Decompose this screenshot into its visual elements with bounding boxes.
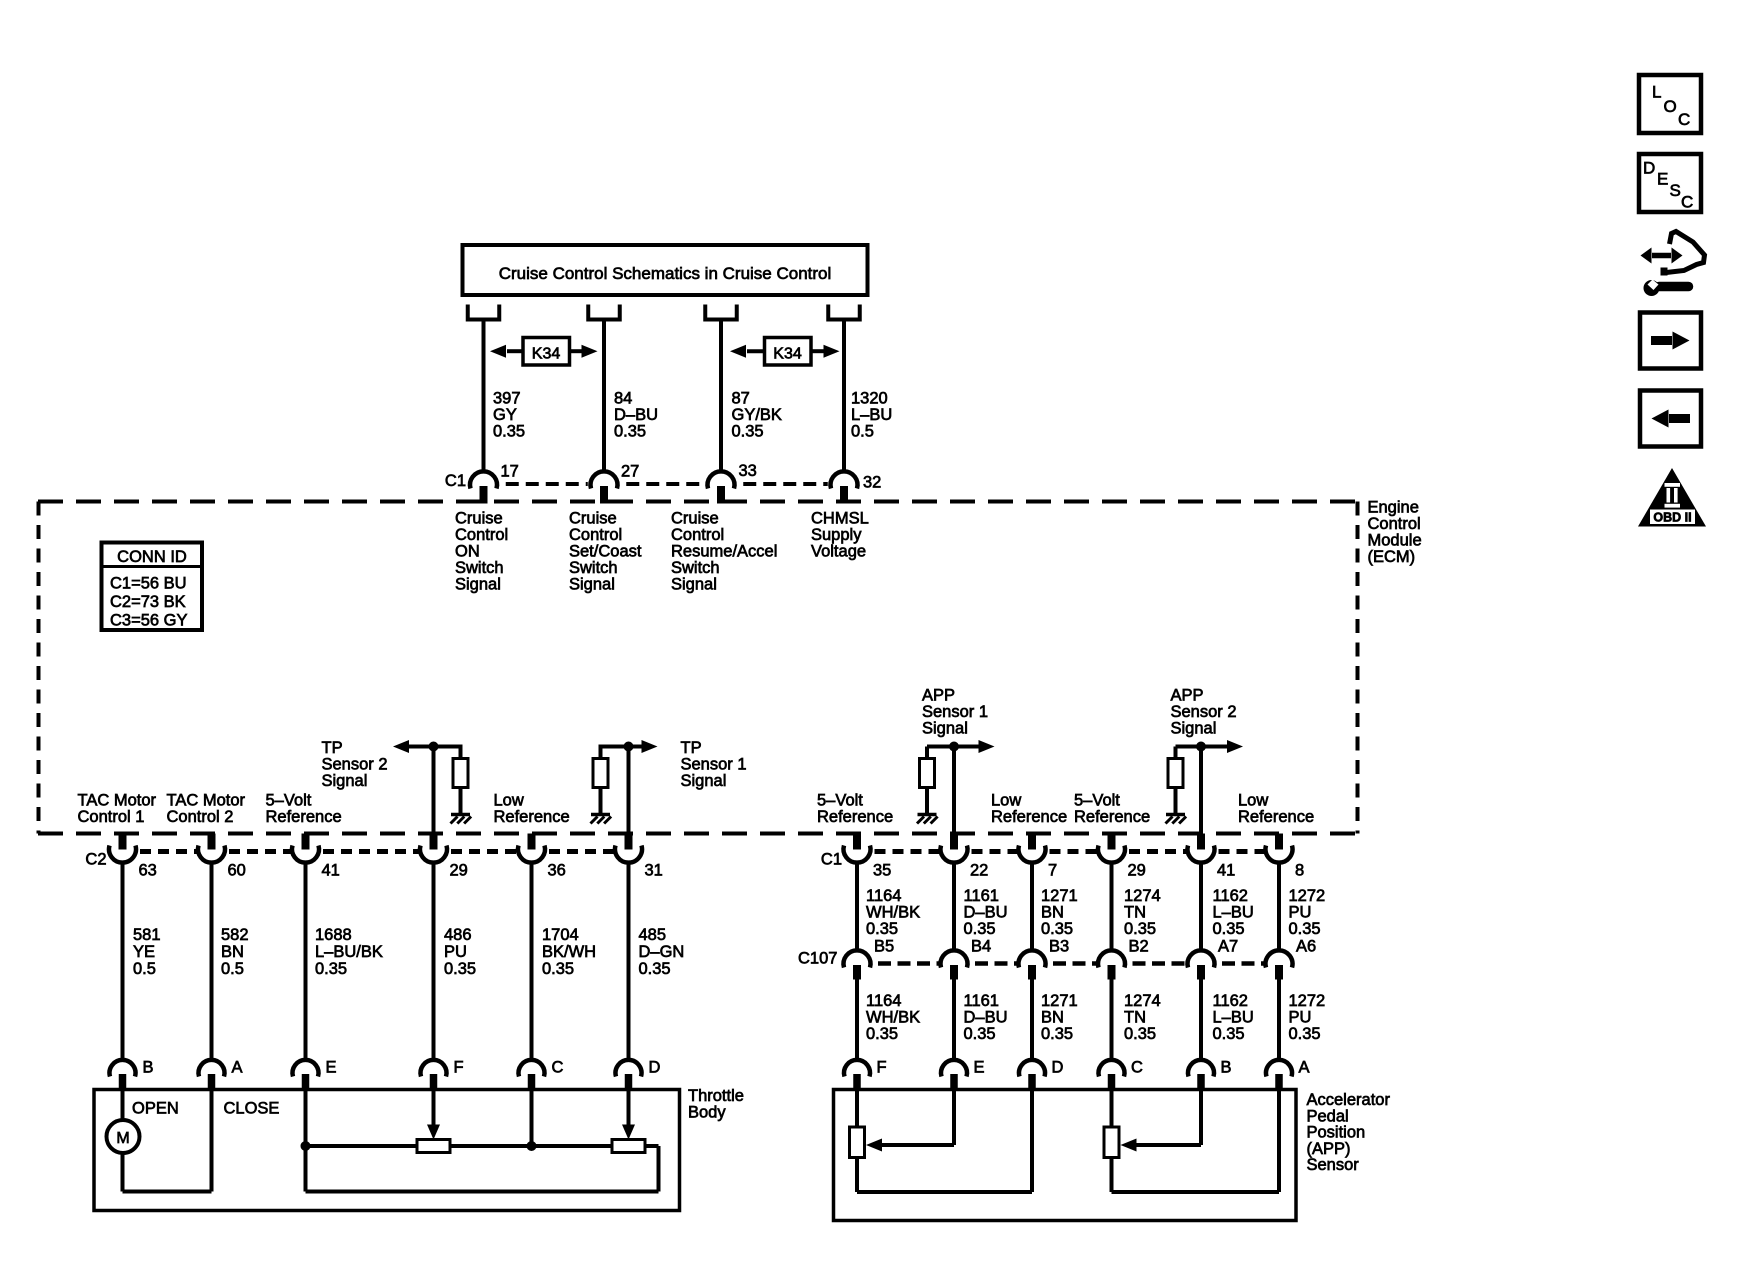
- svg-text:Voltage: Voltage: [811, 543, 866, 561]
- resistor R1: [453, 759, 468, 788]
- svg-text:D: D: [1643, 159, 1655, 178]
- wire pin F to APP pot 1: [855, 1090, 859, 1128]
- svg-text:BK/WH: BK/WH: [542, 943, 596, 961]
- svg-text:C: C: [1131, 1059, 1143, 1077]
- resistor R2: [593, 759, 608, 788]
- wire motor bottom horizontal: [123, 1190, 212, 1194]
- throttle body connector pin F stub: [430, 1074, 438, 1090]
- svg-text:29: 29: [450, 862, 468, 880]
- ECM dashed box left border: [37, 502, 41, 834]
- throttle body connector pin B stub: [119, 1074, 127, 1090]
- wire resistor R3 to ground: [925, 788, 929, 814]
- svg-text:O: O: [1664, 97, 1677, 116]
- wire APP pot1 down: [855, 1158, 859, 1193]
- wire bend to resistor R2: [599, 745, 603, 759]
- connector C107 pin B5 stub: [853, 965, 861, 980]
- connector C2 dashed line: [137, 849, 197, 854]
- wire TP pot1 to pot2: [450, 1144, 612, 1148]
- svg-text:5–Volt: 5–Volt: [817, 792, 863, 810]
- svg-text:0.35: 0.35: [493, 423, 525, 441]
- svg-text:1271: 1271: [1041, 887, 1078, 905]
- svg-text:32: 32: [863, 474, 881, 492]
- cruise control schematics title box: [463, 245, 868, 295]
- svg-text:Control: Control: [455, 526, 508, 544]
- svg-text:1162: 1162: [1213, 992, 1248, 1010]
- svg-text:0.35: 0.35: [1124, 920, 1156, 938]
- svg-text:APP: APP: [1171, 687, 1204, 705]
- ground below R3: [918, 813, 937, 817]
- wire APP pot1 bottom: [857, 1190, 1032, 1194]
- svg-text:Control: Control: [1368, 515, 1421, 533]
- node junction C: [527, 1141, 537, 1151]
- svg-text:CLOSE: CLOSE: [224, 1100, 280, 1118]
- ECM dashed box right border: [1356, 502, 1360, 834]
- svg-text:TP: TP: [681, 739, 702, 757]
- wire APP sensor 1 to pin 22: [952, 747, 956, 834]
- svg-text:17: 17: [501, 463, 519, 481]
- TP wiper arrow F: [432, 1090, 436, 1126]
- connector C107 pin A7 arc: [1188, 950, 1215, 967]
- svg-text:Body: Body: [688, 1104, 726, 1122]
- connector C1 pin 29 stub: [1108, 834, 1116, 850]
- ECM dashed box bottom border: [38, 832, 1358, 836]
- icon forward arrow box: [1640, 313, 1701, 369]
- svg-text:B2: B2: [1129, 938, 1149, 956]
- svg-text:0.35: 0.35: [964, 920, 996, 938]
- throttle body box: [94, 1090, 680, 1211]
- svg-text:5–Volt: 5–Volt: [266, 792, 312, 810]
- APP wiper arrow E: [952, 1090, 956, 1146]
- throttle body connector pin A arc: [199, 1060, 225, 1077]
- icon OBD II triangle: [1638, 468, 1706, 527]
- node junction APP sensor 1: [949, 742, 959, 752]
- APP connector pin C stub: [1108, 1074, 1116, 1090]
- svg-text:B: B: [1221, 1059, 1232, 1077]
- APP connector pin A arc: [1266, 1060, 1292, 1077]
- wire 1272 PU upper: [1277, 861, 1281, 952]
- APP connector pin F stub: [853, 1074, 861, 1090]
- throttle body connector pin A stub: [208, 1074, 216, 1090]
- svg-text:(ECM): (ECM): [1368, 548, 1416, 566]
- svg-text:0.35: 0.35: [614, 423, 646, 441]
- connector C107 pin B3 arc: [1019, 950, 1046, 967]
- svg-text:60: 60: [228, 862, 246, 880]
- svg-text:Control 2: Control 2: [167, 808, 234, 826]
- svg-text:D: D: [1052, 1059, 1064, 1077]
- svg-text:TAC Motor: TAC Motor: [78, 792, 157, 810]
- connector C107 pin B2 arc: [1098, 950, 1125, 967]
- svg-text:A: A: [1299, 1059, 1310, 1077]
- svg-text:0.35: 0.35: [1213, 1025, 1245, 1043]
- svg-text:1161: 1161: [964, 992, 999, 1010]
- svg-text:Position: Position: [1307, 1124, 1366, 1142]
- throttle body connector pin F arc: [421, 1060, 447, 1077]
- svg-text:Low: Low: [1238, 792, 1268, 810]
- svg-text:Low: Low: [991, 792, 1021, 810]
- svg-text:Reference: Reference: [817, 808, 893, 826]
- svg-text:41: 41: [1217, 862, 1235, 880]
- svg-text:Supply: Supply: [811, 526, 862, 544]
- svg-text:YE: YE: [133, 943, 155, 961]
- wire 397 GY 0.35 wire: [482, 320, 486, 474]
- connector C1 pin 22 stub: [950, 834, 958, 850]
- svg-text:BN: BN: [1041, 1009, 1064, 1027]
- icon tools double arrow: [1652, 253, 1671, 259]
- wire 581 YE: [121, 861, 125, 1062]
- svg-text:1272: 1272: [1289, 887, 1326, 905]
- svg-text:M: M: [116, 1130, 129, 1147]
- svg-text:Sensor: Sensor: [1307, 1156, 1360, 1174]
- svg-text:A: A: [232, 1059, 243, 1077]
- svg-text:Reference: Reference: [991, 808, 1067, 826]
- splice pack K34 left arrows: [507, 349, 523, 353]
- svg-text:A6: A6: [1296, 938, 1316, 956]
- APP connector pin D stub: [1028, 1074, 1036, 1090]
- connector C2 pin 63 stub: [119, 834, 127, 850]
- connector C1 pin 8 arc: [1265, 846, 1292, 863]
- svg-text:Control: Control: [671, 526, 724, 544]
- connector C2 pin 36 arc: [518, 846, 545, 863]
- connector C2 pin 60 arc: [198, 846, 225, 863]
- svg-text:Signal: Signal: [569, 576, 615, 594]
- wire resistor R3 bend: [925, 747, 929, 759]
- svg-text:CHMSL: CHMSL: [811, 510, 869, 528]
- svg-text:Sensor 1: Sensor 1: [681, 756, 747, 774]
- wire up to pin D: [1030, 1090, 1034, 1193]
- wire motor to bottom: [121, 1152, 125, 1192]
- wire 1162 L-BU lower: [1199, 980, 1203, 1063]
- svg-text:0.35: 0.35: [1041, 1025, 1073, 1043]
- wire up to pin A: [210, 1090, 214, 1192]
- connector C107 pin B2 stub: [1108, 965, 1116, 980]
- wire pin E vertical: [304, 1090, 308, 1192]
- connector C1 dashed line: [500, 482, 588, 486]
- svg-text:APP: APP: [922, 687, 955, 705]
- wire pin B to motor: [121, 1090, 125, 1122]
- wire APP sensor 2 to pin 41: [1199, 747, 1203, 834]
- wire E to TP pot 1: [306, 1144, 418, 1148]
- ground below R1: [451, 813, 470, 817]
- svg-text:Engine: Engine: [1368, 499, 1419, 517]
- svg-text:TP: TP: [322, 739, 343, 757]
- svg-text:Signal: Signal: [922, 720, 968, 738]
- connector C107 pin B4 stub: [950, 965, 958, 980]
- svg-text:36: 36: [548, 862, 566, 880]
- svg-text:Throttle: Throttle: [688, 1087, 744, 1105]
- svg-text:582: 582: [221, 926, 249, 944]
- svg-text:B4: B4: [971, 938, 991, 956]
- svg-text:C107: C107: [798, 950, 837, 968]
- wire 1161 D-BU lower: [952, 980, 956, 1063]
- wire TP sensor 2 to pin 29: [432, 747, 436, 834]
- connector C2 pin 31 stub: [625, 834, 633, 850]
- svg-text:0.35: 0.35: [1041, 920, 1073, 938]
- svg-text:L–BU: L–BU: [851, 406, 892, 424]
- svg-text:Cruise: Cruise: [455, 510, 503, 528]
- svg-text:K34: K34: [532, 346, 561, 363]
- svg-text:Reference: Reference: [494, 808, 570, 826]
- APP connector pin D arc: [1019, 1060, 1045, 1077]
- connector C2 pin 60 stub: [208, 834, 216, 850]
- svg-text:OPEN: OPEN: [132, 1100, 179, 1118]
- svg-text:0.35: 0.35: [444, 960, 476, 978]
- connector C107 pin B3 stub: [1028, 965, 1036, 980]
- svg-text:84: 84: [614, 390, 632, 408]
- svg-text:Sensor 2: Sensor 2: [322, 756, 388, 774]
- wire 1161 D-BU upper: [952, 861, 956, 952]
- svg-text:27: 27: [621, 463, 639, 481]
- svg-text:Reference: Reference: [266, 808, 342, 826]
- wire 1271 BN lower: [1030, 980, 1034, 1063]
- connector C2 pin 29 arc: [420, 846, 447, 863]
- svg-text:F: F: [877, 1059, 887, 1077]
- svg-text:E: E: [1657, 170, 1668, 189]
- svg-text:(APP): (APP): [1307, 1140, 1351, 1158]
- svg-text:Signal: Signal: [455, 576, 501, 594]
- svg-text:Switch: Switch: [455, 559, 504, 577]
- splice pack K34 right box: [765, 338, 812, 366]
- svg-text:C: C: [1681, 193, 1693, 212]
- connector C1 pin 22 arc: [941, 846, 968, 863]
- wire 485 D-GN: [627, 861, 631, 1062]
- connector C1 pin 33 arc: [708, 471, 735, 488]
- svg-text:0.35: 0.35: [1213, 920, 1245, 938]
- APP potentiometer 1: [850, 1127, 865, 1158]
- wire 1704 BK/WH: [530, 861, 534, 1062]
- svg-text:1272: 1272: [1289, 992, 1326, 1010]
- svg-text:63: 63: [139, 862, 157, 880]
- connector C2 pin 29 stub: [430, 834, 438, 850]
- svg-text:87: 87: [732, 390, 750, 408]
- svg-text:486: 486: [444, 926, 472, 944]
- svg-text:TAC Motor: TAC Motor: [167, 792, 246, 810]
- wire 1164 WH/BK upper: [855, 861, 859, 952]
- ground below R4: [1166, 813, 1185, 817]
- wire up to pin A right: [1277, 1090, 1281, 1193]
- svg-text:K34: K34: [773, 346, 802, 363]
- svg-text:B: B: [143, 1059, 154, 1077]
- connector C1 pin 32 stub: [840, 486, 848, 504]
- wire 582 BN: [210, 861, 214, 1062]
- connector C1 pin 35 stub: [853, 834, 861, 850]
- APP connector pin C arc: [1099, 1060, 1125, 1077]
- wire 84 D-BU 0.35 wire: [602, 320, 606, 474]
- wire 1274 TN upper: [1110, 861, 1114, 952]
- icon LOC box: [1639, 75, 1701, 133]
- icon tools wrench: [1644, 280, 1660, 296]
- wire resistor R1 to ground: [459, 788, 463, 814]
- svg-text:8: 8: [1295, 862, 1304, 880]
- connector C1 pin 27 stub: [600, 486, 608, 504]
- throttle body connector pin D arc: [616, 1060, 642, 1077]
- connector C1 pin 7 stub: [1028, 834, 1036, 850]
- svg-text:S: S: [1670, 181, 1681, 200]
- svg-text:1688: 1688: [315, 926, 352, 944]
- svg-text:B5: B5: [874, 938, 894, 956]
- svg-text:CONN ID: CONN ID: [117, 548, 187, 566]
- connector C2 pin 36 stub: [528, 834, 536, 850]
- connector bracket under title box #4: [828, 305, 860, 320]
- svg-text:Switch: Switch: [671, 559, 720, 577]
- connector C1 pin 41 arc: [1188, 846, 1215, 863]
- svg-text:0.35: 0.35: [1289, 920, 1321, 938]
- svg-text:BN: BN: [221, 943, 244, 961]
- connector C1 pin 8 stub: [1275, 834, 1283, 850]
- svg-text:C: C: [552, 1059, 564, 1077]
- throttle body connector pin B arc: [110, 1060, 136, 1077]
- connector C107 pin B4 arc: [941, 950, 968, 967]
- svg-text:41: 41: [322, 862, 340, 880]
- motor M1: [107, 1120, 140, 1153]
- svg-text:1704: 1704: [542, 926, 579, 944]
- svg-text:C1=56 BU: C1=56 BU: [110, 575, 187, 593]
- svg-text:1161: 1161: [964, 887, 999, 905]
- connector C2 pin 41 arc: [292, 846, 319, 863]
- svg-text:Cruise: Cruise: [671, 510, 719, 528]
- throttle body connector pin D stub: [625, 1074, 633, 1090]
- wire 1271 BN upper: [1030, 861, 1034, 952]
- connector C1 pin 41 stub: [1197, 834, 1205, 850]
- svg-text:TN: TN: [1124, 904, 1146, 922]
- svg-text:E: E: [326, 1059, 337, 1077]
- svg-text:0.35: 0.35: [1289, 1025, 1321, 1043]
- connector C107 pin A7 stub: [1197, 965, 1205, 980]
- svg-text:D–BU: D–BU: [614, 406, 658, 424]
- svg-text:397: 397: [493, 390, 521, 408]
- icon tools hook: [1662, 232, 1705, 274]
- wire TP pot2 right: [645, 1144, 659, 1148]
- connector C2 pin 63 arc: [109, 846, 136, 863]
- svg-text:Low: Low: [494, 792, 524, 810]
- wire 486 PU: [432, 861, 436, 1062]
- APP connector pin B stub: [1197, 1074, 1205, 1090]
- svg-text:WH/BK: WH/BK: [866, 904, 920, 922]
- node junction TP sensor 2: [429, 742, 439, 752]
- svg-text:Resume/Accel: Resume/Accel: [671, 543, 777, 561]
- svg-text:Signal: Signal: [681, 772, 727, 790]
- wire 1162 L-BU upper: [1199, 861, 1203, 952]
- throttle body connector pin E arc: [293, 1060, 319, 1077]
- connector bracket under title box #3: [705, 305, 737, 320]
- svg-text:35: 35: [873, 862, 891, 880]
- CONN ID table: [102, 543, 203, 631]
- svg-text:581: 581: [133, 926, 161, 944]
- connector C2 pin 41 stub: [302, 834, 310, 850]
- svg-text:31: 31: [645, 862, 663, 880]
- wire pin C to APP pot 2: [1110, 1090, 1114, 1128]
- svg-text:Module: Module: [1368, 532, 1422, 550]
- icon DESC box: [1639, 154, 1701, 212]
- svg-text:1164: 1164: [866, 887, 901, 905]
- svg-text:D–BU: D–BU: [964, 904, 1008, 922]
- connector C107 pin A6 stub: [1275, 965, 1283, 980]
- svg-text:C: C: [1678, 110, 1690, 129]
- connector C107 pin A6 arc: [1266, 950, 1293, 967]
- svg-text:C3=56 GY: C3=56 GY: [110, 612, 188, 630]
- TP potentiometer 2: [612, 1140, 645, 1153]
- svg-text:5–Volt: 5–Volt: [1074, 792, 1120, 810]
- svg-text:1320: 1320: [851, 390, 888, 408]
- ECM dashed box top border: [38, 500, 1358, 504]
- svg-text:Sensor 1: Sensor 1: [922, 703, 988, 721]
- wire bend to resistor R1: [459, 745, 463, 759]
- svg-text:C1: C1: [821, 851, 842, 869]
- svg-text:C2: C2: [85, 851, 106, 869]
- connector C1 pin 17 stub: [480, 486, 488, 504]
- wire 1320 L-BU 0.5 wire: [842, 320, 846, 474]
- svg-text:0.5: 0.5: [133, 960, 156, 978]
- svg-text:Signal: Signal: [322, 772, 368, 790]
- node junction E: [301, 1141, 311, 1151]
- TP potentiometer 1: [417, 1140, 450, 1153]
- APP wiper arrow B: [1199, 1090, 1203, 1146]
- connector C1 right dashed line: [872, 849, 940, 854]
- svg-text:Reference: Reference: [1074, 808, 1150, 826]
- svg-text:PU: PU: [1289, 904, 1312, 922]
- svg-text:GY: GY: [493, 406, 517, 424]
- node junction TP sensor 1: [624, 742, 634, 752]
- svg-text:0.5: 0.5: [851, 423, 874, 441]
- svg-text:0.35: 0.35: [1124, 1025, 1156, 1043]
- svg-text:TN: TN: [1124, 1009, 1146, 1027]
- svg-text:Reference: Reference: [1238, 808, 1314, 826]
- APP potentiometer 2: [1104, 1127, 1119, 1158]
- svg-text:0.35: 0.35: [542, 960, 574, 978]
- connector C1 pin 35 arc: [843, 846, 870, 863]
- svg-text:7: 7: [1048, 862, 1057, 880]
- svg-text:OBD II: OBD II: [1653, 511, 1691, 525]
- svg-text:Cruise: Cruise: [569, 510, 617, 528]
- svg-text:Cruise Control Schematics in C: Cruise Control Schematics in Cruise Cont…: [499, 264, 832, 283]
- svg-text:C2=73 BK: C2=73 BK: [110, 593, 186, 611]
- svg-text:B3: B3: [1049, 938, 1069, 956]
- svg-text:0.35: 0.35: [964, 1025, 996, 1043]
- throttle body connector pin E stub: [302, 1074, 310, 1090]
- svg-text:Pedal: Pedal: [1307, 1107, 1349, 1125]
- splice pack K34 right arrows: [747, 349, 765, 353]
- TP sensor 1 signal arrow: [601, 745, 642, 749]
- connector C1 pin 29 arc: [1098, 846, 1125, 863]
- connector C2 pin 31 arc: [615, 846, 642, 863]
- wire 1688 L-BU/BK: [304, 861, 308, 1062]
- svg-text:L–BU: L–BU: [1213, 1009, 1254, 1027]
- svg-text:Set/Coast: Set/Coast: [569, 543, 642, 561]
- APP connector pin A stub: [1275, 1074, 1283, 1090]
- svg-text:1271: 1271: [1041, 992, 1078, 1010]
- throttle body connector pin C arc: [519, 1060, 545, 1077]
- wire 1272 PU lower: [1277, 980, 1281, 1063]
- resistor R4: [1168, 759, 1183, 788]
- svg-text:C1: C1: [445, 472, 466, 490]
- svg-text:F: F: [454, 1059, 464, 1077]
- connector C1 pin 17 arc: [470, 471, 497, 488]
- connector C107 pin B5 arc: [843, 950, 870, 967]
- svg-text:Control 1: Control 1: [78, 808, 145, 826]
- svg-text:L–BU/BK: L–BU/BK: [315, 943, 383, 961]
- svg-text:0.35: 0.35: [732, 423, 764, 441]
- svg-text:22: 22: [970, 862, 988, 880]
- connector bracket under title box #1: [468, 305, 500, 320]
- svg-text:ON: ON: [455, 543, 480, 561]
- svg-text:GY/BK: GY/BK: [732, 406, 782, 424]
- TP sensor 2 signal arrow: [393, 740, 409, 753]
- APP connector pin E arc: [941, 1060, 967, 1077]
- APP sensor box: [834, 1090, 1297, 1221]
- resistor R3: [920, 759, 935, 788]
- wire APP pot2 bottom: [1112, 1190, 1280, 1194]
- svg-text:1274: 1274: [1124, 992, 1161, 1010]
- TP wiper arrow D: [627, 1090, 631, 1126]
